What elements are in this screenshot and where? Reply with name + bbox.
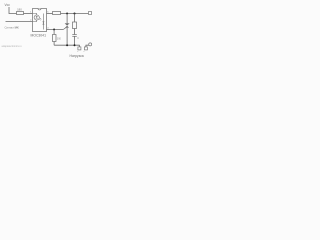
resistor R4 snubber: [73, 22, 77, 29]
U1 internal LED circle: [34, 15, 39, 20]
node junction gate: [53, 29, 55, 31]
svg-text:Нагрузка: Нагрузка: [70, 54, 84, 58]
terminal b: [84, 47, 87, 50]
svg-text:adaptelectronics.ru: adaptelectronics.ru: [2, 44, 23, 48]
wire triac gate: [47, 27, 68, 30]
resistor R3: [53, 35, 57, 42]
node load label: [70, 54, 84, 58]
node watermark: [2, 44, 23, 48]
terminal a: [78, 47, 81, 50]
node input label: [5, 25, 19, 29]
pin 6: [47, 12, 49, 14]
U1 emission arrows: [39, 18, 41, 20]
transistor Q1 triac: [65, 24, 69, 46]
node junction C: [66, 44, 68, 46]
node junction A: [66, 13, 68, 15]
resistor R1 value 180: [17, 7, 22, 11]
terminal TP2: [89, 43, 92, 46]
wire bottom rail: [54, 44, 80, 46]
node junction B: [74, 13, 76, 15]
wire input to pin2: [6, 21, 33, 23]
wire Vcc to R1: [9, 7, 17, 14]
wire gate to R3: [53, 30, 55, 35]
wire R2 to terminal: [61, 13, 90, 15]
wire junction B to R4: [74, 14, 76, 22]
svg-text:Сигнал МК: Сигнал МК: [5, 25, 19, 29]
wire R3 to rail: [53, 42, 55, 46]
svg-text:180: 180: [17, 7, 22, 11]
pin 2: [30, 20, 32, 22]
node junction D: [74, 44, 76, 46]
svg-text:300: 300: [57, 37, 62, 40]
resistor R1: [17, 12, 24, 15]
U1 internal photo-triac: [42, 14, 44, 30]
wire junction A to triac: [66, 14, 68, 24]
terminal TP1: [89, 12, 92, 15]
wire R1 to pin1: [24, 13, 33, 15]
wire C1 to rail: [74, 37, 76, 46]
svg-text:MOC3041: MOC3041: [31, 33, 47, 37]
terminal b AC mark: [83, 51, 85, 54]
pin 4: [47, 28, 49, 30]
resistor R2: [53, 12, 61, 15]
wire rail to terminal a: [78, 45, 80, 47]
power label Vcc: [5, 3, 11, 7]
svg-text:~: ~: [83, 51, 85, 54]
wire terminal b to TP2: [86, 45, 89, 47]
pin 1: [30, 12, 32, 14]
op-amp U1 MOC3041 body: [33, 9, 47, 32]
capacitor C1: [72, 35, 77, 37]
U1 internal LED diode: [32, 14, 38, 22]
wire pin6 to R2: [47, 13, 53, 15]
terminal a AC mark: [77, 51, 79, 54]
svg-text:~: ~: [77, 51, 79, 54]
svg-text:Vcc: Vcc: [5, 3, 11, 7]
resistor R3 value: [57, 37, 62, 40]
capacitor C1 value: [77, 37, 79, 40]
wire R4 to C1: [74, 29, 76, 35]
U1 label MOC3041: [31, 33, 47, 37]
svg-text:C: C: [77, 37, 79, 40]
